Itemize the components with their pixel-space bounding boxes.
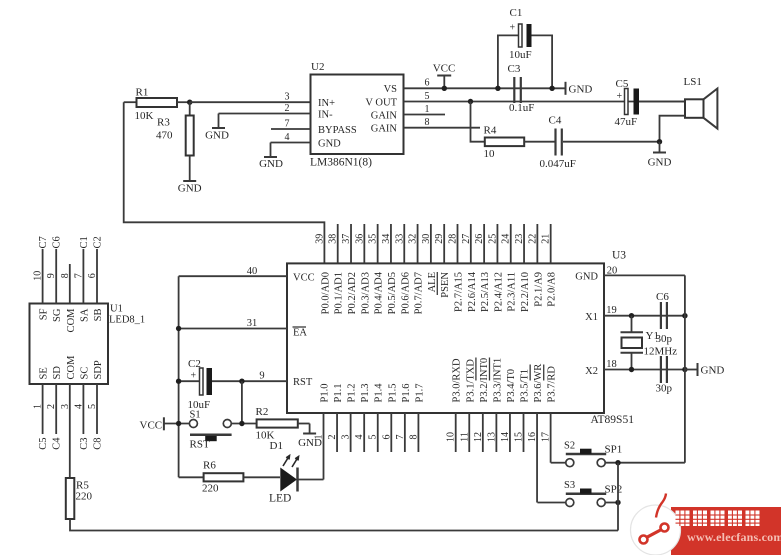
svg-text:P3.4/T0: P3.4/T0: [506, 369, 517, 403]
svg-text:P2.4/A12: P2.4/A12: [493, 272, 504, 312]
ground X2: [685, 369, 698, 371]
svg-text:C1: C1: [79, 236, 90, 248]
svg-text:10: 10: [484, 148, 496, 160]
U3 pin 38 P0.1/AD1: [337, 224, 339, 263]
U3 pin 33 P0.6/AD6: [403, 224, 405, 263]
svg-text:P2.2/A10: P2.2/A10: [520, 272, 531, 312]
svg-text:30p: 30p: [656, 383, 673, 395]
svg-text:7: 7: [73, 273, 84, 278]
svg-text:www.elecfans.com: www.elecfans.com: [687, 530, 781, 544]
svg-text:C2: C2: [93, 236, 104, 248]
U3 pin 25 P2.4/A12: [496, 224, 498, 263]
node speaker-C4-gnd: [657, 139, 662, 144]
capacitor C1: [498, 35, 519, 88]
svg-text:VS: VS: [384, 84, 398, 95]
resistor R6: [179, 476, 204, 478]
U3 pin 30 ALE: [430, 224, 432, 263]
svg-text:3: 3: [285, 92, 290, 103]
svg-text:2: 2: [46, 404, 57, 409]
svg-text:25: 25: [487, 234, 498, 244]
svg-text:P1.5: P1.5: [387, 384, 398, 403]
svg-text:P2.6/A14: P2.6/A14: [467, 271, 478, 312]
node C2 left: [176, 379, 181, 384]
svg-text:P0.2/AD2: P0.2/AD2: [347, 272, 358, 314]
svg-text:C5: C5: [616, 78, 629, 90]
ground R2: [309, 424, 311, 434]
svg-text:U2: U2: [311, 61, 324, 73]
svg-text:C8: C8: [93, 438, 104, 450]
U3 pin 6 P1.5: [390, 413, 392, 452]
wire R1 left to P0.0 net: [124, 102, 325, 263]
svg-text:+: +: [191, 371, 197, 382]
svg-text:GND: GND: [298, 437, 322, 449]
svg-text:ALE: ALE: [427, 272, 438, 292]
ground U2 pin4: [270, 143, 272, 157]
svg-text:C5: C5: [38, 438, 49, 450]
svg-text:5: 5: [425, 91, 430, 102]
svg-text:X1: X1: [585, 312, 598, 323]
U1 top pin 10 SF: [42, 249, 44, 304]
svg-text:R2: R2: [256, 406, 269, 418]
svg-text:P2.5/A13: P2.5/A13: [480, 272, 491, 312]
svg-text:GND: GND: [205, 130, 229, 142]
U1 bottom pin 2 SD: [55, 384, 57, 434]
svg-text:P1.4: P1.4: [374, 383, 385, 403]
wire speaker to ground: [660, 116, 686, 142]
U3 pin 19 X1 wire: [604, 315, 685, 317]
svg-text:EA: EA: [293, 328, 307, 339]
svg-text:P3.5/T1: P3.5/T1: [520, 369, 531, 403]
microcontroller U3 AT89S51: [287, 263, 604, 413]
U3 pin 40 VCC wire: [179, 275, 287, 277]
U3 pin 21 P2.0/A8: [550, 224, 552, 263]
svg-text:33: 33: [394, 234, 405, 244]
svg-text:P0.0/AD0: P0.0/AD0: [320, 272, 331, 314]
svg-text:R4: R4: [484, 125, 497, 137]
svg-text:P2.0/A8: P2.0/A8: [547, 272, 558, 307]
svg-text:+: +: [617, 91, 623, 102]
svg-text:R6: R6: [203, 460, 216, 472]
U2 pin 4 wire: [271, 142, 311, 144]
svg-text:RST: RST: [190, 439, 210, 451]
capacitor C2: [179, 380, 200, 382]
svg-text:P3.7/RD: P3.7/RD: [547, 366, 558, 403]
svg-text:C7: C7: [38, 236, 49, 248]
wire R1 to U2 pin3: [190, 101, 311, 103]
svg-text:S2: S2: [564, 441, 575, 452]
U3 pin 5 P1.4: [377, 413, 379, 452]
resistor R1: [124, 101, 137, 103]
ground line6: [565, 82, 567, 95]
svg-text:SE: SE: [39, 367, 50, 379]
U3 pin 14 P3.4/T0: [509, 413, 511, 452]
svg-text:C6: C6: [656, 291, 669, 303]
svg-text:4: 4: [285, 132, 290, 143]
svg-text:8: 8: [425, 117, 430, 128]
svg-text:D1: D1: [270, 440, 283, 452]
svg-text:26: 26: [474, 234, 485, 244]
switch S2: [551, 462, 566, 464]
svg-text:S3: S3: [564, 480, 575, 491]
U3 pin 2 P1.1: [336, 413, 338, 452]
U3 pin 13 P3.3/INT1: [495, 413, 497, 452]
resistor R3: [189, 102, 191, 115]
svg-text:12MHz: 12MHz: [644, 346, 678, 358]
svg-text:SP2: SP2: [605, 484, 623, 496]
node R1-R3-pin3 junction: [187, 100, 192, 105]
svg-text:34: 34: [381, 234, 392, 244]
U3 pin 10 P3.0/RXD: [455, 413, 457, 452]
U1 top pin 9 SG: [55, 249, 57, 304]
U3 pin 12 P3.2/INT0: [482, 413, 484, 452]
svg-text:P1.1: P1.1: [333, 384, 344, 403]
U3 pin 36 P0.3/AD3: [363, 224, 365, 263]
capacitor C6: [660, 302, 662, 329]
U3 pin 37 P0.2/AD2: [350, 224, 352, 263]
node line5 R4 junction: [468, 99, 473, 104]
svg-text:P1.7: P1.7: [414, 384, 425, 403]
svg-text:SG: SG: [52, 308, 63, 322]
svg-text:P0.1/AD1: P0.1/AD1: [334, 272, 345, 314]
svg-text:R3: R3: [157, 117, 170, 129]
op-amp U2 LM386: [311, 75, 404, 155]
node SP1: [615, 460, 620, 465]
svg-text:SA: SA: [79, 308, 90, 322]
node pin31 junction: [176, 326, 181, 331]
U1 top pin 8 COM: [69, 264, 71, 304]
resistor R5: [66, 478, 75, 519]
svg-text:10K: 10K: [135, 110, 154, 122]
U1 top pin 6 SB: [96, 249, 98, 304]
svg-text:6: 6: [425, 78, 430, 89]
svg-text:30: 30: [421, 234, 432, 244]
svg-text:P3.0/RXD: P3.0/RXD: [452, 358, 463, 402]
svg-text:C3: C3: [508, 63, 521, 75]
svg-text:12: 12: [473, 432, 484, 442]
svg-text:39: 39: [314, 234, 325, 244]
wire RST to S1/R2: [241, 381, 243, 423]
svg-text:P0.3/AD3: P0.3/AD3: [360, 272, 371, 314]
svg-text:GND: GND: [701, 365, 725, 377]
svg-text:GAIN: GAIN: [371, 124, 398, 135]
svg-text:35: 35: [368, 234, 379, 244]
svg-text:LED: LED: [269, 493, 291, 505]
svg-text:29: 29: [434, 234, 445, 244]
svg-text:P2.7/A15: P2.7/A15: [454, 272, 465, 312]
svg-text:P0.4/AD4: P0.4/AD4: [374, 271, 385, 314]
svg-text:P2.1/A9: P2.1/A9: [533, 272, 544, 307]
svg-text:32: 32: [408, 234, 419, 244]
svg-text:20: 20: [607, 266, 618, 277]
capacitor 30p lower: [660, 356, 662, 383]
U2 pin 6 wire VS: [404, 87, 566, 89]
svg-text:4: 4: [354, 435, 365, 440]
svg-text:GND: GND: [259, 158, 283, 170]
svg-text:P1.0: P1.0: [320, 384, 331, 403]
resistor R2: [257, 419, 298, 427]
svg-text:RST: RST: [293, 377, 313, 388]
U3 pin 23 P2.2/A10: [523, 224, 525, 263]
U3 pin 9 RST wire: [242, 380, 287, 382]
svg-text:BYPASS: BYPASS: [318, 125, 357, 136]
svg-text:36: 36: [354, 234, 365, 244]
U2 pin 7 wire BYPASS: [271, 128, 311, 130]
svg-text:13: 13: [486, 432, 497, 442]
svg-text:4: 4: [73, 404, 84, 409]
U2 pin 8 stub GAIN: [404, 127, 481, 129]
svg-text:8: 8: [60, 273, 71, 278]
svg-text:LED8_1: LED8_1: [109, 315, 145, 326]
svg-text:10: 10: [33, 271, 44, 281]
U2 pin 2 wire: [219, 113, 311, 115]
svg-text:30p: 30p: [656, 333, 673, 345]
svg-text:P3.2/INT0: P3.2/INT0: [479, 358, 490, 403]
svg-text:AT89S51: AT89S51: [591, 414, 635, 426]
svg-text:14: 14: [500, 432, 511, 442]
svg-text:IN-: IN-: [318, 109, 333, 120]
svg-text:P0.6/AD6: P0.6/AD6: [400, 272, 411, 314]
U3 pin 24 P2.3/A11: [510, 224, 512, 263]
svg-text:3: 3: [60, 404, 71, 409]
svg-text:R1: R1: [136, 87, 149, 99]
switch S3: [537, 502, 565, 504]
capacitor C3: [513, 77, 515, 103]
U3 pin 15 P3.5/T1: [523, 413, 525, 452]
node C6 right: [682, 313, 687, 318]
svg-text:5: 5: [368, 435, 379, 440]
svg-text:10: 10: [446, 432, 457, 442]
svg-text:23: 23: [514, 234, 525, 244]
svg-text:38: 38: [328, 234, 339, 244]
svg-text:11: 11: [459, 432, 470, 442]
svg-text:28: 28: [448, 234, 459, 244]
svg-text:220: 220: [202, 483, 219, 495]
svg-text:220: 220: [76, 491, 93, 503]
svg-text:2: 2: [285, 103, 290, 114]
U1 bottom pin 4 SC: [82, 384, 84, 434]
node VCC-S1 junction: [176, 421, 181, 426]
svg-text:+: +: [510, 23, 516, 34]
svg-text:16: 16: [527, 432, 538, 442]
switch S1 RST: [189, 420, 197, 428]
svg-text:15: 15: [514, 432, 525, 442]
svg-text:P2.3/A11: P2.3/A11: [507, 272, 518, 312]
svg-text:SC: SC: [79, 367, 90, 380]
svg-text:21: 21: [541, 234, 552, 244]
svg-text:22: 22: [527, 234, 538, 244]
svg-text:1: 1: [33, 404, 44, 409]
svg-text:COM: COM: [66, 355, 77, 380]
svg-text:7: 7: [395, 435, 406, 440]
U1 bottom pin 5 SDP: [96, 384, 98, 434]
svg-text:10uF: 10uF: [509, 49, 532, 61]
svg-text:GND: GND: [178, 183, 202, 195]
svg-text:3: 3: [341, 435, 352, 440]
U3 pin 32 P0.7/AD7: [417, 224, 419, 263]
svg-text:18: 18: [606, 359, 617, 370]
svg-text:37: 37: [341, 234, 352, 244]
capacitor C5: [625, 89, 629, 115]
U3 pin 18 X2 wire: [604, 369, 685, 371]
svg-text:P3.6/WR: P3.6/WR: [533, 364, 544, 403]
capacitor C4: [554, 129, 556, 156]
svg-text:PSEN: PSEN: [440, 272, 451, 298]
svg-text:17: 17: [541, 432, 552, 442]
svg-text:GND: GND: [318, 138, 341, 149]
svg-text:31: 31: [247, 318, 258, 329]
node RST junction: [239, 379, 244, 384]
wire right bus: [684, 275, 686, 462]
svg-text:9: 9: [46, 273, 57, 278]
U3 pin 34 P0.5/AD5: [390, 224, 392, 263]
node C1 left: [495, 86, 500, 91]
resistor R4: [471, 102, 485, 142]
svg-text:VCC: VCC: [293, 272, 315, 283]
svg-text:19: 19: [606, 305, 617, 316]
svg-text:SF: SF: [39, 308, 50, 320]
svg-text:9: 9: [259, 371, 264, 382]
U2 pin 5 wire VOUT: [404, 101, 686, 103]
wire R5 to bottom bus: [70, 519, 618, 531]
svg-text:C2: C2: [188, 358, 201, 370]
EA overline: [293, 326, 307, 328]
watermark text: [676, 511, 690, 527]
wire SP bus down: [617, 463, 619, 531]
svg-text:P3.1/TXD: P3.1/TXD: [465, 359, 476, 403]
U1 top pin 7 SA: [82, 249, 84, 304]
U3 pin 22 P2.1/A9: [536, 224, 538, 263]
svg-text:LS1: LS1: [684, 76, 702, 88]
svg-text:SD: SD: [52, 366, 63, 380]
U3 pin 35 P0.4/AD4: [377, 224, 379, 263]
wire VCC bus left: [178, 276, 180, 477]
svg-text:8: 8: [408, 435, 419, 440]
svg-text:SDP: SDP: [93, 360, 104, 379]
node C1 right: [549, 86, 554, 91]
svg-text:GND: GND: [575, 272, 598, 283]
U3 pin 3 P1.2: [350, 413, 352, 452]
U3 pin 7 P1.6: [404, 413, 406, 452]
svg-text:C4: C4: [549, 115, 562, 127]
svg-text:C4: C4: [52, 437, 63, 450]
crystal Y1 12MHz: [629, 313, 634, 318]
svg-text:C3: C3: [79, 438, 90, 450]
U3 pin 8 P1.7: [417, 413, 419, 452]
svg-text:6: 6: [87, 273, 98, 278]
node S1-R2 junction: [239, 421, 244, 426]
svg-text:P0.7/AD7: P0.7/AD7: [414, 272, 425, 314]
U3 pin 17 P3.7/RD: [550, 413, 552, 463]
U3 pin 31 EA wire: [179, 328, 287, 330]
svg-text:0.1uF: 0.1uF: [509, 102, 534, 114]
svg-text:7: 7: [285, 119, 290, 130]
U3 pin 16 P3.6/WR: [536, 413, 538, 503]
U3 pin 4 P1.3: [363, 413, 365, 452]
U3 pin 11 P3.1/TXD: [468, 413, 470, 452]
svg-text:COM: COM: [66, 308, 77, 333]
svg-text:V OUT: V OUT: [365, 97, 397, 108]
svg-text:S1: S1: [190, 410, 201, 421]
svg-text:X2: X2: [585, 366, 598, 377]
svg-text:47uF: 47uF: [615, 116, 638, 128]
svg-text:5: 5: [87, 404, 98, 409]
svg-text:VCC: VCC: [140, 420, 163, 432]
U3 pin 27 P2.6/A14: [470, 224, 472, 263]
svg-text:GND: GND: [569, 84, 593, 96]
ground U2 pin2: [218, 114, 220, 128]
svg-text:VCC: VCC: [433, 63, 456, 75]
svg-text:P1.6: P1.6: [401, 384, 412, 403]
U3 pin 20 GND wire: [604, 274, 685, 276]
svg-text:SB: SB: [93, 309, 104, 322]
svg-text:470: 470: [156, 130, 173, 142]
wire LED to P1.0: [298, 479, 324, 481]
node 30p right: [682, 367, 687, 372]
svg-text:0.047uF: 0.047uF: [540, 158, 576, 170]
svg-text:C6: C6: [52, 236, 63, 248]
U3 pin 26 P2.5/A13: [483, 224, 485, 263]
svg-text:P1.3: P1.3: [360, 384, 371, 403]
watermark logo circle: [631, 505, 681, 555]
U3 pin 1 P1.0: [323, 413, 325, 480]
ground R3: [183, 180, 196, 182]
watermark elecfans red box: [671, 507, 781, 555]
svg-text:C1: C1: [510, 7, 523, 19]
U3 pin 28 P2.7/A15: [457, 224, 459, 263]
svg-text:GAIN: GAIN: [371, 110, 398, 121]
svg-text:GND: GND: [648, 157, 672, 169]
node SP2: [615, 500, 620, 505]
display U1 LED8_1: [30, 304, 109, 385]
svg-text:IN+: IN+: [318, 98, 335, 109]
U2 pin 1 stub GAIN: [404, 114, 446, 116]
ground speaker: [659, 142, 661, 152]
svg-text:6: 6: [381, 435, 392, 440]
svg-text:SP1: SP1: [605, 444, 623, 456]
svg-text:1: 1: [425, 104, 430, 115]
svg-text:P1.2: P1.2: [347, 384, 358, 403]
svg-text:LM386N1(8): LM386N1(8): [310, 157, 372, 169]
svg-text:40: 40: [247, 266, 258, 277]
svg-text:U3: U3: [612, 250, 626, 262]
svg-text:27: 27: [461, 234, 472, 244]
U1 bottom pin 1 SE: [42, 384, 44, 434]
svg-text:2: 2: [327, 435, 338, 440]
svg-text:P3.3/INT1: P3.3/INT1: [492, 358, 503, 403]
U1 bottom pin 3 COM: [69, 384, 71, 478]
U3 pin 29 PSEN: [443, 224, 445, 263]
svg-text:24: 24: [501, 234, 512, 244]
svg-text:U1: U1: [110, 304, 123, 315]
svg-text:P0.5/AD5: P0.5/AD5: [387, 272, 398, 314]
